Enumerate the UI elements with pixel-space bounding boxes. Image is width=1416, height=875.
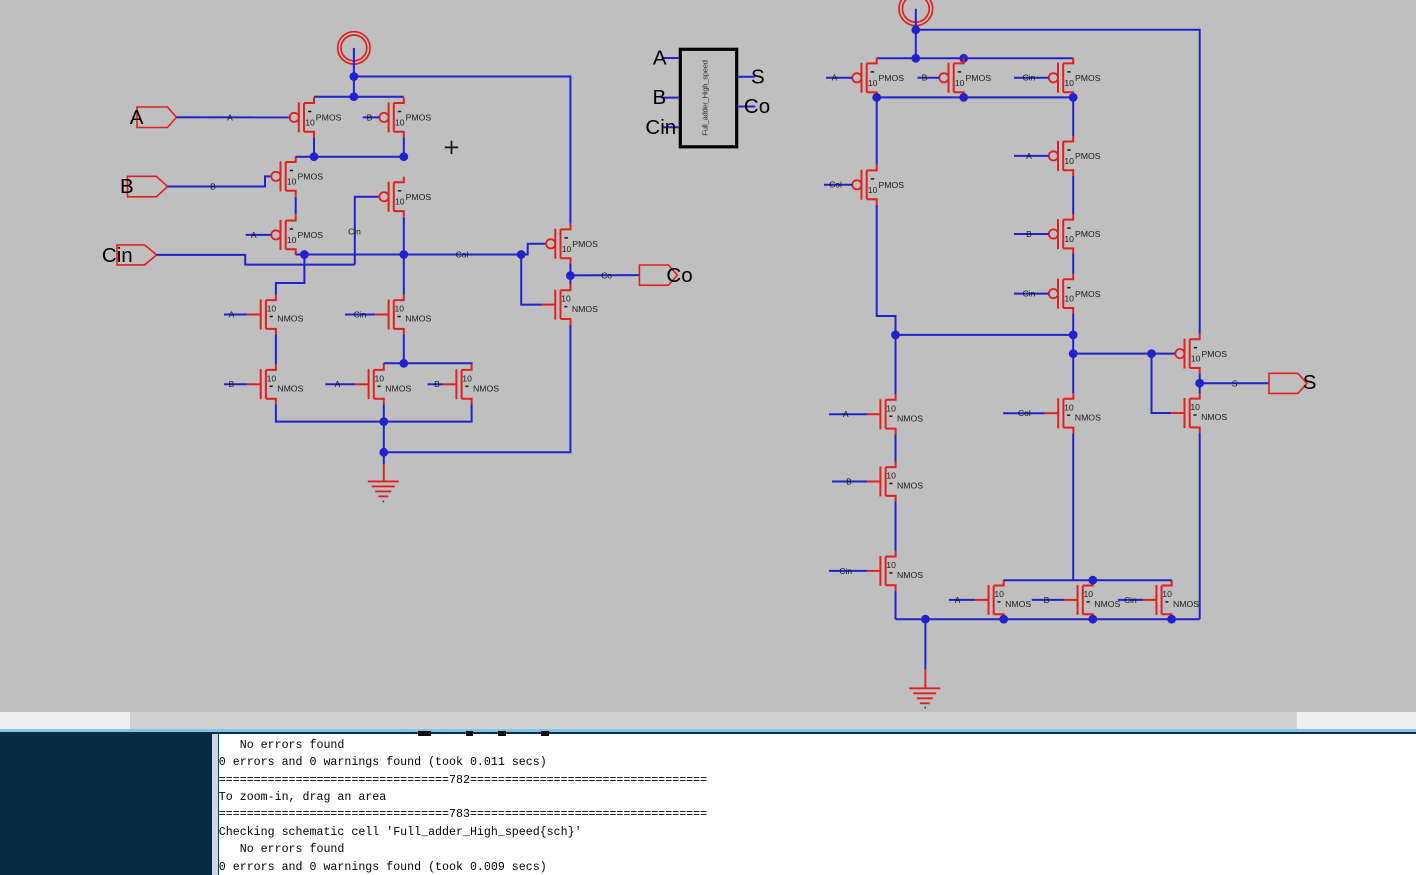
wire NMOS L4 source down <box>383 404 385 421</box>
transistor NMOS R8 S output inverter <box>1171 393 1227 433</box>
svg-text:Co: Co <box>744 95 770 118</box>
junction node n1 right <box>399 152 408 161</box>
transistor PMOS L2 gate B stub (row1 right) <box>379 97 431 137</box>
wire rail to PMOS R5 source <box>1072 97 1074 135</box>
svg-text:Cin: Cin <box>1023 73 1036 83</box>
svg-text:Cin: Cin <box>102 244 133 267</box>
wire net Col rail <box>296 244 546 255</box>
transistor PMOS L5 gate A stub (row4) <box>271 215 323 255</box>
wire VDD branch to output PMOS source <box>354 77 571 224</box>
svg-text:A: A <box>843 409 849 419</box>
wire net Cin vertical to PMOS L4 gate <box>355 197 380 265</box>
junction node Co <box>566 271 575 280</box>
junction node S <box>1195 379 1204 388</box>
svg-text:B: B <box>229 379 235 389</box>
svg-text:B: B <box>1026 229 1032 239</box>
svg-text:10: 10 <box>1064 78 1074 88</box>
junction VDD branch (right) <box>911 25 920 34</box>
wire PMOS R5 to R6 series <box>1072 176 1074 214</box>
wire VDD stem (right) <box>915 9 917 59</box>
transistor NMOS L6 output inverter <box>542 285 598 325</box>
wire rail to NMOS R1 drain <box>895 335 897 394</box>
transistor NMOS R5 gate A (bottom trio) <box>975 580 1031 620</box>
wire rail to PMOS R4 source <box>876 97 878 164</box>
wire PMOS L3 to PMOS L5 series <box>295 197 297 215</box>
transistor PMOS L3 gate B (row2) <box>271 156 323 196</box>
wire PMOS R6 to R7 series <box>1072 254 1074 274</box>
wire gate stub A of PMOS L5 <box>246 234 272 236</box>
transistor NMOS R1 gate A (chain) <box>867 394 923 434</box>
transistor NMOS R2 gate B (chain) <box>867 462 923 502</box>
transistor NMOS R6 gate B (bottom trio) <box>1064 580 1120 620</box>
wire drain rail right row1 <box>877 96 1073 98</box>
transistor PMOS R5 gate A (right branch) <box>1049 136 1101 176</box>
transistor PMOS R7 gate Cin (right branch) <box>1049 274 1101 314</box>
wire gate stub Cin of NMOS L2 <box>345 314 375 316</box>
wire icon stub A <box>662 57 679 59</box>
wire net A to PMOS L1 gate <box>176 116 291 118</box>
junction ground node left <box>379 448 388 457</box>
svg-text:S: S <box>1232 378 1238 388</box>
wire ground rail (right) <box>896 618 1200 620</box>
svg-text:A: A <box>251 230 257 240</box>
wire Col to NMOS L1 drain <box>276 255 305 295</box>
wire node n1 rail <box>296 156 404 158</box>
transistor NMOS L3 gate B (chain bottom) <box>247 364 303 404</box>
svg-text:10: 10 <box>868 78 878 88</box>
junction rail P2 source <box>959 54 968 63</box>
svg-text:10: 10 <box>955 78 965 88</box>
junction Col rail tap middle <box>399 250 408 259</box>
svg-text:10: 10 <box>1064 156 1074 166</box>
port A input pin <box>130 106 177 129</box>
transistor NMOS R4 gate Col (middle) <box>1045 393 1101 433</box>
wire gate stub Col of NMOS R4 <box>1003 412 1045 414</box>
wire gate stub A of NMOS L1 <box>224 314 247 316</box>
wire NMOS R3 source to ground rail <box>895 591 897 619</box>
svg-text:NMOS: NMOS <box>473 384 499 394</box>
ground symbol stem red (left) <box>383 464 385 481</box>
svg-text:Co: Co <box>666 264 692 287</box>
junction drain rail mid <box>959 93 968 102</box>
svg-text:10: 10 <box>886 560 896 570</box>
svg-text:B: B <box>653 86 667 109</box>
svg-text:PMOS: PMOS <box>879 73 905 83</box>
svg-text:Cin: Cin <box>1124 595 1137 605</box>
svg-text:B: B <box>846 476 852 486</box>
junction ground rail gnd tap <box>921 615 930 624</box>
svg-text:PMOS: PMOS <box>316 113 342 123</box>
transistor PMOS R6 gate B (right branch) <box>1049 214 1101 254</box>
transistor PMOS R2 gate B (row1) <box>939 58 991 98</box>
svg-text:10: 10 <box>267 373 277 383</box>
svg-text:PMOS: PMOS <box>1075 73 1101 83</box>
svg-text:NMOS: NMOS <box>277 314 303 324</box>
svg-text:Cin: Cin <box>348 226 361 236</box>
svg-text:PMOS: PMOS <box>1202 349 1228 359</box>
wire NMOS R2 to R3 series <box>895 502 897 551</box>
svg-text:NMOS: NMOS <box>572 304 598 314</box>
port Cin input pin <box>102 244 157 267</box>
svg-text:Cin: Cin <box>1023 289 1036 299</box>
transistor PMOS L1 gate A (row1 left) <box>290 97 342 137</box>
wire gate stub B of NMOS R6 <box>1032 599 1065 601</box>
transistor NMOS R3 gate Cin (chain) <box>867 551 923 591</box>
transistor PMOS R8 S output inverter <box>1175 334 1227 374</box>
wire gate stub Cin of PMOS R7 <box>1014 293 1049 295</box>
svg-text:PMOS: PMOS <box>406 192 432 202</box>
wire gate stub B of PMOS R2 <box>918 77 940 79</box>
svg-text:Cin: Cin <box>839 566 852 576</box>
wire gate stub B of PMOS L2 <box>363 116 380 118</box>
svg-text:10: 10 <box>562 244 572 254</box>
messages window console text <box>219 719 707 875</box>
wire PMOS R7 drain to lower rail <box>1072 314 1074 335</box>
wire gate stub A of NMOS R5 <box>949 599 975 601</box>
transistor NMOS L2 gate Cin (middle branch) <box>375 295 431 335</box>
icon cell Full_adder_High_speed box <box>680 49 736 147</box>
svg-text:NMOS: NMOS <box>385 384 411 394</box>
svg-text:PMOS: PMOS <box>966 73 992 83</box>
svg-text:S: S <box>1303 371 1317 394</box>
junction bottom rail tap <box>379 417 388 426</box>
transistor PMOS L4 gate Cin (row3) <box>379 177 431 217</box>
svg-text:10: 10 <box>1084 589 1094 599</box>
svg-text:10: 10 <box>1162 589 1172 599</box>
cursor crosshair <box>445 141 458 154</box>
svg-text:NMOS: NMOS <box>277 384 303 394</box>
svg-text:Col: Col <box>829 180 842 190</box>
svg-text:NMOS: NMOS <box>897 413 923 423</box>
wire VDD rail (right row1) <box>877 57 1073 59</box>
svg-text:Full_adder_High_speed: Full_adder_High_speed <box>701 60 710 135</box>
junction VDD branch (left) <box>350 72 359 81</box>
transistor NMOS L1 gate A (pull-down chain top) <box>247 295 303 335</box>
wire S inverter NMOS source down right side <box>1199 433 1201 619</box>
wire Sbar to S inverter PMOS gate <box>1073 353 1175 355</box>
wire pair top rail <box>384 363 472 364</box>
wire net S to output pin <box>1200 382 1269 384</box>
junction Sbar gate branch <box>1147 349 1156 358</box>
svg-text:PMOS: PMOS <box>298 230 324 240</box>
junction Sbar gate tap <box>1069 349 1078 358</box>
transistor NMOS L4 gate A (parallel pair left) <box>355 364 411 404</box>
clipped console line descender dashes <box>418 731 431 736</box>
wire NMOS L1 source to NMOS L3 drain <box>275 334 277 364</box>
junction trio top rail <box>1088 576 1097 585</box>
svg-text:10: 10 <box>1064 294 1074 304</box>
port S output pin <box>1269 371 1316 394</box>
port B input pin <box>120 175 168 198</box>
wire NMOS L3 source to bottom rail <box>276 404 472 421</box>
wire gate stub A of PMOS R1 <box>826 77 852 79</box>
svg-text:PMOS: PMOS <box>1075 151 1101 161</box>
wire NMOS L2 source to pair node <box>403 334 405 363</box>
wire gate stub Cin of PMOS R3 <box>1014 77 1049 79</box>
svg-text:10: 10 <box>267 304 277 314</box>
svg-text:NMOS: NMOS <box>1173 599 1199 609</box>
svg-text:10: 10 <box>561 294 571 304</box>
junction Col rail tap right <box>517 250 526 259</box>
ground symbol (right) <box>909 688 940 703</box>
svg-text:10: 10 <box>287 176 297 186</box>
svg-text:PMOS: PMOS <box>406 113 432 123</box>
junction drain rail right <box>1069 93 1078 102</box>
transistor PMOS R1 gate A (row1) <box>852 58 904 98</box>
wire ground node stem <box>383 452 385 464</box>
svg-text:10: 10 <box>886 403 896 413</box>
junction Col rail tap left <box>300 250 309 259</box>
svg-text:10: 10 <box>868 185 878 195</box>
svg-text:Cin: Cin <box>354 309 367 319</box>
svg-text:NMOS: NMOS <box>897 570 923 580</box>
svg-text:B: B <box>367 112 373 122</box>
wire Col to NMOS L2 drain <box>403 255 405 295</box>
svg-text:Col: Col <box>456 250 469 260</box>
wire icon stub S <box>738 76 755 78</box>
wire net B to PMOS L3 gate <box>168 176 272 186</box>
svg-text:10: 10 <box>1190 402 1200 412</box>
wire PMOS R4 drain to lower rail <box>877 205 896 335</box>
junction pair node <box>399 359 408 368</box>
port Co output pin <box>639 264 692 287</box>
svg-text:PMOS: PMOS <box>1075 229 1101 239</box>
wire net Co to output pin <box>570 274 639 276</box>
wire PMOS L4 drain to Col rail <box>403 217 405 254</box>
wire ground stem (right) <box>924 619 926 669</box>
wire gate stub B of NMOS R2 <box>832 481 867 483</box>
junction ground rail trio Cin <box>1167 615 1176 624</box>
svg-text:10: 10 <box>395 197 405 207</box>
svg-text:B: B <box>120 175 134 198</box>
wire gate stub A of NMOS R1 <box>829 413 867 415</box>
svg-text:10: 10 <box>1064 402 1074 412</box>
wire Sbar to NMOS R4 drain <box>1072 354 1074 394</box>
wire gate stub A of NMOS L4 <box>325 383 355 385</box>
transistor NMOS L5 gate B (parallel pair right) <box>443 364 499 404</box>
svg-text:10: 10 <box>1191 354 1201 364</box>
svg-text:B: B <box>434 379 440 389</box>
svg-text:PMOS: PMOS <box>879 180 905 190</box>
junction VDD rail tap (right) <box>911 54 920 63</box>
svg-text:A: A <box>335 379 341 389</box>
svg-text:Cin: Cin <box>645 116 676 139</box>
svg-text:B: B <box>210 182 216 192</box>
svg-text:NMOS: NMOS <box>405 314 431 324</box>
wire VDD stem down (left) <box>353 48 355 97</box>
junction lower rail left <box>891 331 900 340</box>
svg-text:A: A <box>227 112 233 122</box>
svg-text:10: 10 <box>994 589 1004 599</box>
svg-text:PMOS: PMOS <box>298 172 324 182</box>
junction ground rail trio A <box>999 615 1008 624</box>
wire gate stub Cin of NMOS R3 <box>829 570 867 572</box>
wire gate stub Cin of NMOS R7 <box>1118 599 1143 601</box>
wire gate stub B of NMOS L5 <box>428 383 444 385</box>
wire VDD branch to S inverter source <box>916 30 1200 334</box>
svg-text:S: S <box>751 65 765 88</box>
svg-text:10: 10 <box>395 117 405 127</box>
junction lower rail right <box>1069 331 1078 340</box>
transistor NMOS R7 gate Cin (bottom trio) <box>1143 580 1199 620</box>
wire gate stub B of NMOS L3 <box>224 383 247 385</box>
svg-text:NMOS: NMOS <box>897 481 923 491</box>
svg-text:A: A <box>1026 151 1032 161</box>
svg-text:Co: Co <box>601 270 612 280</box>
svg-text:10: 10 <box>395 304 405 314</box>
svg-text:A: A <box>130 106 144 129</box>
transistor PMOS L6 output inverter <box>546 224 598 264</box>
wire inverter output node <box>569 264 571 285</box>
junction node n1 left <box>310 152 319 161</box>
ground anchor mark (right) <box>924 707 926 709</box>
transistor PMOS R3 gate Cin (row1) <box>1049 58 1101 98</box>
ground anchor mark (left) <box>383 501 385 503</box>
svg-text:NMOS: NMOS <box>1075 412 1101 422</box>
wire S inverter output node <box>1199 374 1201 393</box>
svg-text:NMOS: NMOS <box>1094 599 1120 609</box>
wire VDD rail (left row1) <box>314 96 404 98</box>
svg-text:10: 10 <box>462 373 472 383</box>
wire net Cin feed with jog <box>157 255 355 265</box>
VDD double-circle (left) <box>338 32 370 64</box>
wire gate stub A of PMOS R5 <box>1014 155 1049 157</box>
wire ground node to output NMOS source <box>384 325 571 453</box>
svg-text:A: A <box>832 73 838 83</box>
svg-text:Col: Col <box>1018 408 1031 418</box>
svg-text:10: 10 <box>375 373 385 383</box>
wire icon stub Co <box>738 106 755 108</box>
wire PMOS L1 drain down <box>313 137 315 156</box>
svg-text:10: 10 <box>287 235 297 245</box>
wire icon stub Cin <box>662 126 679 128</box>
svg-text:A: A <box>653 47 667 70</box>
wire gate stub Col of PMOS R4 <box>824 184 852 186</box>
svg-text:A: A <box>229 309 235 319</box>
wire node Sbar vertical <box>1072 335 1074 354</box>
svg-text:NMOS: NMOS <box>1005 599 1031 609</box>
svg-text:A: A <box>955 595 961 605</box>
svg-text:NMOS: NMOS <box>1201 412 1227 422</box>
wire bottom rail to ground node <box>383 422 385 453</box>
wire NMOS R4 source down <box>1072 433 1074 580</box>
svg-text:B: B <box>1044 595 1050 605</box>
svg-text:B: B <box>922 73 928 83</box>
wire icon stub B <box>662 97 679 99</box>
wire Col to output NMOS gate <box>521 255 542 305</box>
wire PMOS L2 drain down <box>403 137 405 156</box>
ground symbol stem red (right) <box>924 669 926 688</box>
junction ground rail trio B <box>1088 615 1097 624</box>
wire pair top left stub <box>383 363 385 364</box>
power symbol VDD (right circuit) <box>899 0 933 26</box>
transistor PMOS R4 gate Col (left branch) <box>852 165 904 205</box>
wire NMOS R1 to R2 series <box>895 434 897 461</box>
svg-text:10: 10 <box>305 117 315 127</box>
wire Sbar to S inverter NMOS gate <box>1152 354 1172 413</box>
svg-text:10: 10 <box>886 471 896 481</box>
svg-text:PMOS: PMOS <box>1075 289 1101 299</box>
ground symbol (left) <box>368 481 399 496</box>
wire lower pull-up rail <box>896 334 1074 336</box>
wire bottom trio top rail <box>1004 579 1172 581</box>
junction VDD rail tap (left) <box>350 92 359 101</box>
svg-text:10: 10 <box>1064 234 1074 244</box>
svg-text:PMOS: PMOS <box>572 239 598 249</box>
wire gate stub B of PMOS R6 <box>1014 233 1049 235</box>
junction drain rail left <box>872 93 881 102</box>
